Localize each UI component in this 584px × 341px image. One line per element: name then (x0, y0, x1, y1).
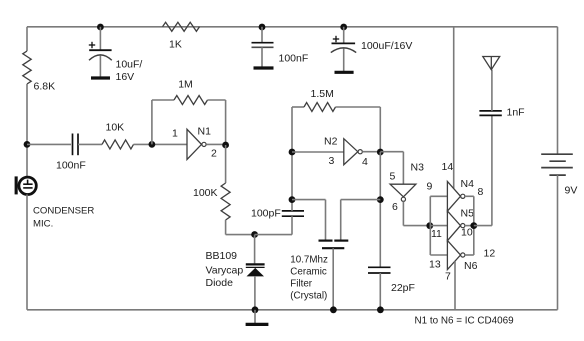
node junction N2 input (289, 149, 296, 156)
ground symbol below rail (254, 310, 256, 323)
svg-text:100nF: 100nF (56, 160, 86, 172)
resistor 1K (163, 22, 200, 31)
battery 9V (541, 154, 573, 175)
node junction outputs joined (470, 222, 477, 229)
node junction filter ground (330, 306, 337, 313)
wire cap to 10K (78, 143, 102, 145)
resistor 10K (102, 140, 134, 149)
node junction N1 output (222, 142, 229, 149)
resistor 1.5M (304, 103, 336, 112)
svg-text:100uF/16V: 100uF/16V (361, 40, 412, 52)
svg-text:N1 to N6 = IC CD4069: N1 to N6 = IC CD4069 (415, 316, 515, 327)
antenna (483, 57, 500, 70)
op-amp inverter N4 (447, 182, 465, 212)
svg-text:(Crystal): (Crystal) (290, 291, 327, 302)
svg-text:100nF: 100nF (279, 53, 309, 65)
svg-text:1K: 1K (169, 39, 182, 51)
node junction varicap (251, 231, 258, 238)
wire mic to coupling cap (27, 143, 71, 145)
svg-text:N5: N5 (461, 208, 475, 220)
svg-text:5: 5 (390, 171, 396, 183)
capacitor 100uF/16V electrolytic (331, 27, 356, 71)
svg-text:9: 9 (427, 181, 433, 193)
wire N1 output (206, 143, 225, 145)
op-amp inverter N1 (187, 129, 206, 159)
wire N6 output (465, 254, 474, 256)
wire 100K to varicap node (225, 220, 227, 235)
svg-text:10K: 10K (106, 122, 125, 134)
svg-text:10: 10 (461, 227, 473, 239)
wire 1.5M right leg (336, 106, 381, 108)
svg-text:2: 2 (211, 148, 217, 160)
svg-text:4: 4 (362, 156, 368, 168)
svg-text:6: 6 (392, 201, 398, 213)
wire varicap node down (254, 235, 256, 264)
wire N4 input stub (430, 195, 447, 197)
wire 22pF to ground rail (379, 273, 381, 310)
wire top supply rail (27, 26, 558, 28)
svg-text:CONDENSER: CONDENSER (33, 206, 94, 217)
op-amp inverter N6 (447, 241, 465, 270)
wire input bracket (429, 196, 431, 255)
resistor 100K (221, 183, 230, 220)
capacitor 22pF (368, 267, 391, 273)
wire N1 out down to 100K (225, 145, 227, 183)
wire antenna column upper (491, 70, 493, 111)
svg-text:3: 3 (329, 155, 335, 167)
wire 1M feedback left leg (151, 100, 153, 144)
capacitor 100pF (282, 211, 304, 216)
wire pin 14 supply from top rail (453, 27, 455, 189)
resistor 1M (174, 96, 208, 105)
wire filter left leg (292, 199, 326, 201)
svg-text:1M: 1M (178, 78, 193, 90)
node junction left rail audio tap (24, 141, 31, 148)
wire varicap node to 100pF (255, 234, 292, 236)
svg-text:11: 11 (431, 228, 442, 240)
svg-text:16V: 16V (116, 71, 135, 83)
resistor 6.8K (23, 51, 31, 84)
node junction varicap ground (252, 306, 259, 313)
op-amp inverter N5 (447, 211, 465, 241)
svg-text:1: 1 (172, 128, 178, 140)
microphone MIC (condenser) (15, 176, 37, 194)
svg-text:1nF: 1nF (507, 107, 525, 119)
capacitor 100nF coupling (73, 134, 79, 156)
diode BB109 varicap (246, 264, 265, 276)
svg-text:14: 14 (442, 161, 454, 173)
svg-text:10.7Mhz: 10.7Mhz (290, 255, 328, 266)
svg-text:100pF: 100pF (251, 208, 281, 220)
wire N2 input stub (292, 151, 344, 153)
node junction filter left tap (289, 196, 296, 203)
svg-text:12: 12 (484, 248, 496, 260)
wire 100pF bottom lead (291, 216, 293, 234)
capacitor 10uF/16V electrolytic (89, 27, 112, 77)
wire left rail lower segment (26, 194, 28, 309)
svg-text:22pF: 22pF (391, 282, 415, 294)
wire N6 input stub (430, 254, 447, 256)
wire N2 output column (379, 152, 381, 267)
svg-text:Varycap: Varycap (206, 265, 244, 277)
svg-text:Filter: Filter (290, 279, 313, 290)
capacitor 100nF (top rail decoupling) (252, 27, 274, 67)
node junction filter right tap (377, 196, 384, 203)
wire N3 output to buffer bank (402, 201, 404, 225)
wire N4 output (465, 195, 474, 197)
svg-text:N4: N4 (461, 178, 475, 190)
wire antenna column lower (491, 115, 493, 225)
svg-text:13: 13 (429, 259, 441, 271)
svg-text:Diode: Diode (206, 277, 234, 289)
wire battery top lead (557, 27, 559, 154)
ground bar under 10uF (91, 76, 110, 79)
svg-text:N1: N1 (198, 126, 212, 138)
wire outputs to antenna column (474, 225, 492, 227)
svg-text:10uF/: 10uF/ (116, 59, 143, 71)
wire N5 output (465, 225, 474, 227)
svg-text:6.8K: 6.8K (34, 81, 56, 93)
svg-text:1.5M: 1.5M (311, 88, 334, 100)
node junction 10uF tap (97, 24, 104, 31)
wire battery bottom lead (557, 175, 559, 310)
node junction N2 output (377, 149, 384, 156)
svg-text:8: 8 (478, 186, 484, 198)
node junction 100uF tap (340, 24, 347, 31)
wire N2 output (362, 151, 380, 153)
svg-text:100K: 100K (193, 187, 218, 199)
wire bottom ground rail (27, 309, 558, 311)
wire N2 input column (291, 107, 293, 211)
node junction buffer input (426, 222, 433, 229)
node junction N1 input (149, 141, 156, 148)
ground bar under 100nF (254, 66, 274, 69)
wire N5 input stub (430, 225, 447, 227)
wire 1M feedback right leg (208, 99, 226, 101)
svg-text:BB109: BB109 (206, 250, 238, 262)
svg-text:7: 7 (445, 271, 451, 283)
wire filter right leg (341, 199, 381, 201)
svg-text:9V: 9V (565, 185, 578, 197)
svg-text:MIC.: MIC. (33, 219, 53, 230)
wire left rail upper segment (26, 27, 28, 51)
wire 1.5M left leg (292, 106, 304, 108)
svg-text:N2: N2 (324, 136, 338, 148)
crystal 10.7MHz ceramic filter (319, 241, 349, 249)
svg-text:N6: N6 (464, 260, 478, 272)
ground bar under 100uF (335, 71, 354, 74)
wire 10K to N1 input (134, 143, 188, 145)
svg-text:Ceramic: Ceramic (290, 267, 327, 278)
node junction 22pF ground (377, 306, 384, 313)
wire left rail mid segment (26, 84, 28, 177)
svg-text:N3: N3 (411, 162, 425, 174)
wire N2 out to N3 (380, 151, 403, 153)
wire filter stem to ground rail (332, 248, 334, 310)
op-amp inverter N2 (344, 139, 363, 165)
wire pin 7 to ground rail (454, 261, 456, 310)
wire varicap to ground rail (254, 276, 256, 310)
op-amp inverter N3 (pointing down) (390, 184, 416, 201)
node junction 100nF tap (259, 24, 266, 31)
capacitor 1nF (479, 111, 501, 116)
